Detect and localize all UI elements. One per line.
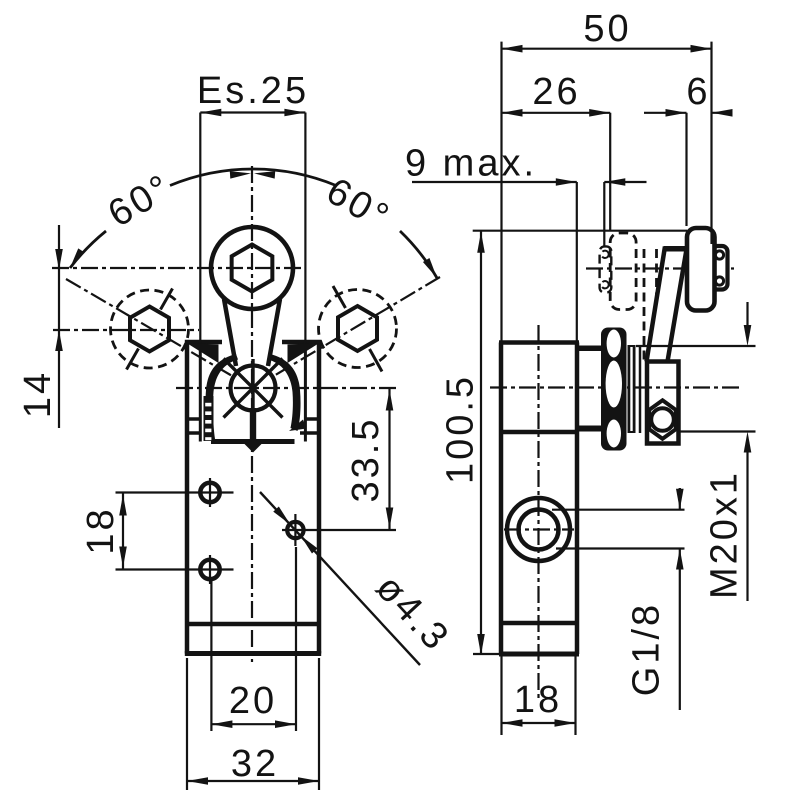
- centerline port horizontal: [504, 528, 574, 530]
- phantom roller side (dashed): [610, 233, 636, 310]
- ear wedge left: [187, 343, 219, 363]
- mounting hole bottom left: [200, 560, 219, 579]
- svg-text:100.5: 100.5: [440, 374, 482, 484]
- roller hex nut: [232, 245, 273, 292]
- phantom axle tab side (dashed): [600, 246, 612, 292]
- svg-text:50: 50: [583, 8, 631, 50]
- phantom roller circle left (dashed): [111, 290, 189, 368]
- roller disc mask: [209, 225, 296, 312]
- hub hex screw: [649, 400, 676, 439]
- svg-text:6: 6: [686, 71, 710, 113]
- dimension 14: [58, 225, 60, 428]
- leader o4.3: [260, 492, 420, 665]
- dimension M20x1: [636, 302, 756, 601]
- axle tab side: [712, 246, 728, 290]
- dimension G1/8: [552, 488, 685, 710]
- body side view: [499, 343, 579, 655]
- svg-text:18: 18: [514, 679, 562, 721]
- collar neck top: [577, 346, 601, 352]
- dimension 26: [502, 113, 611, 230]
- plunger pin: [250, 408, 256, 442]
- dimension 50: [502, 42, 712, 342]
- svg-text:20: 20: [229, 680, 277, 722]
- dimension 20: [211, 547, 296, 731]
- perpendicular centerline right phantom: [333, 286, 382, 372]
- plunger arrow: [242, 442, 264, 453]
- centerline left phantom horizontal: [53, 329, 199, 331]
- collar neck bottom: [577, 426, 601, 432]
- svg-text:33.5: 33.5: [345, 417, 387, 503]
- centerline roller horizontal: [52, 267, 306, 269]
- dimension 18 left view: [116, 493, 234, 570]
- centerline vertical left view: [251, 166, 253, 662]
- lever hub block side: [647, 362, 679, 444]
- phantom lever arm side (dashed): [644, 249, 657, 361]
- roller circle: [211, 227, 293, 309]
- body inner stubs at head: [187, 419, 319, 433]
- svg-text:32: 32: [231, 743, 279, 785]
- dimension 32: [187, 658, 319, 790]
- washer: [628, 345, 636, 433]
- dimension arc 60deg: [70, 231, 106, 268]
- svg-text:Es.25: Es.25: [197, 70, 309, 112]
- mounting hole top left: [200, 483, 219, 502]
- pivot disc mask: [228, 363, 277, 412]
- centerline phantom lever left diagonal: [66, 279, 234, 377]
- perpendicular centerline left phantom: [127, 289, 173, 370]
- body inner line bottom flange side: [501, 621, 577, 626]
- pivot circle with spokes: [231, 366, 276, 411]
- dimension Es.25: [200, 113, 305, 342]
- phantom hex nut right: [338, 306, 377, 351]
- svg-text:14: 14: [17, 370, 59, 418]
- phantom hex nut left: [130, 307, 169, 352]
- roller lever arm (upright): [224, 299, 280, 366]
- axle tab screws: [715, 251, 723, 259]
- port G1/8 circles: [507, 498, 570, 561]
- dimension 100.5: [473, 231, 687, 655]
- svg-text:G1/8: G1/8: [626, 602, 668, 696]
- return spring coil left: [204, 396, 214, 441]
- dimension 6: [644, 113, 728, 226]
- mounting nut side view: [601, 328, 627, 451]
- body inner line at head: [501, 430, 577, 435]
- centerline side pivot horizontal: [490, 386, 740, 388]
- ear wedge right: [288, 343, 320, 363]
- centerline pivot horizontal: [176, 387, 396, 389]
- dimension 18 side: [502, 656, 576, 735]
- body inner line bottom flange: [187, 622, 319, 627]
- return spring left (coil): [205, 354, 238, 439]
- svg-text:18: 18: [80, 506, 122, 554]
- lever flank claw tip right: [289, 420, 307, 432]
- svg-text:9 max.: 9 max.: [405, 143, 537, 185]
- svg-text:M20x1: M20x1: [704, 470, 746, 599]
- lever arm side: [647, 247, 688, 362]
- head collar left view: [200, 342, 305, 442]
- body left view: [185, 342, 321, 654]
- centerline phantom lever right diagonal: [272, 277, 440, 377]
- phantom roller circle right (dashed): [319, 290, 397, 368]
- dimension 9 max.: [412, 182, 647, 341]
- svg-text:26: 26: [532, 71, 580, 113]
- roller side view: [687, 228, 715, 311]
- dimension 33.5: [282, 389, 396, 530]
- centerline side roller horizontal: [586, 267, 734, 269]
- small hole o4.3: [287, 522, 303, 538]
- centerline side body vertical: [537, 325, 539, 700]
